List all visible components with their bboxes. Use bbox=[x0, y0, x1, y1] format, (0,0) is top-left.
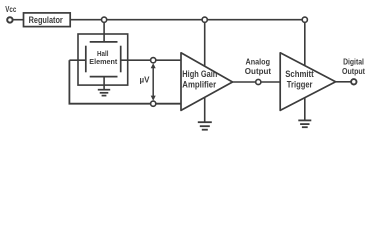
wire supply rail bbox=[70, 19, 305, 21]
svg-text:µV: µV bbox=[140, 76, 151, 85]
hall element bottom contact bar bbox=[90, 76, 118, 78]
ground schmitt trigger bbox=[298, 120, 311, 127]
microvolt arrow bbox=[152, 67, 154, 98]
svg-text:Amplifier: Amplifier bbox=[182, 79, 216, 89]
svg-text:Element: Element bbox=[89, 57, 117, 66]
op-amp high gain amplifier bbox=[181, 53, 233, 111]
wire hall right contact to amplifier input bbox=[121, 59, 181, 61]
wire schmitt output to terminal bbox=[336, 81, 351, 83]
wire amplifier output to schmitt trigger bbox=[233, 81, 281, 83]
wire loop left vertical bbox=[68, 60, 70, 103]
svg-text:Vcc: Vcc bbox=[5, 4, 16, 14]
svg-text:Output: Output bbox=[342, 67, 365, 76]
hall element left contact bar bbox=[85, 46, 87, 73]
wire drop to schmitt trigger bbox=[304, 20, 306, 67]
svg-text:Trigger: Trigger bbox=[287, 79, 313, 89]
wire drop to hall element bbox=[103, 20, 105, 42]
node junction J2 bbox=[202, 17, 207, 22]
wire schmitt trigger to ground bbox=[304, 97, 306, 120]
node hall output bottom bbox=[151, 101, 156, 106]
terminal digital output bbox=[351, 79, 356, 84]
wire hall left contact to loop bbox=[69, 59, 85, 61]
node hall output top bbox=[151, 58, 156, 63]
regulator box bbox=[24, 13, 71, 27]
node analog output bbox=[256, 79, 261, 84]
node junction J1 bbox=[102, 17, 107, 22]
svg-text:Analog: Analog bbox=[246, 57, 271, 66]
svg-text:Schmitt: Schmitt bbox=[285, 69, 314, 79]
hall element right contact bar bbox=[120, 46, 122, 73]
svg-text:Regulator: Regulator bbox=[29, 15, 64, 25]
wire drop to amplifier bbox=[204, 20, 206, 68]
node junction J3 bbox=[302, 17, 307, 22]
svg-text:Digital: Digital bbox=[343, 57, 364, 66]
terminal Vcc bbox=[7, 17, 12, 22]
hall element outer box bbox=[78, 34, 128, 85]
wire amplifier to ground bbox=[204, 97, 206, 122]
wire hall bottom contact to ground bbox=[103, 77, 105, 90]
schmitt trigger U2 bbox=[280, 53, 335, 111]
wire Vcc to regulator bbox=[11, 19, 24, 21]
svg-text:Output: Output bbox=[245, 67, 272, 76]
ground amplifier bbox=[198, 122, 212, 130]
hall element top contact bar bbox=[90, 41, 118, 43]
wire loop bottom to amplifier input bbox=[69, 103, 182, 105]
svg-text:High Gain: High Gain bbox=[182, 69, 217, 79]
ground hall bbox=[98, 90, 110, 96]
